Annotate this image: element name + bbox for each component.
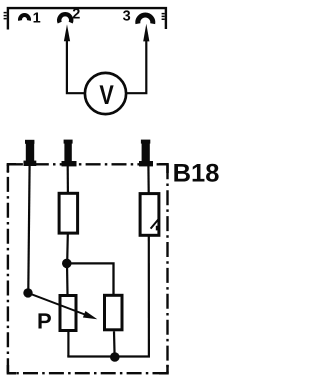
potentiometer P body <box>60 296 76 331</box>
resistor R2 (right, with trim mark) <box>140 194 159 236</box>
junction node B <box>110 352 120 362</box>
wire terminal1 down to wiper node <box>28 165 29 290</box>
wire R3 bottom to node B <box>113 331 116 356</box>
enclosure B18 dash-dot boundary <box>8 164 168 373</box>
wire terminal2 down to resistor R1 <box>67 165 69 192</box>
wire from voltmeter left up to terminal 2 <box>67 33 85 93</box>
frame left serration ticks <box>4 13 7 19</box>
resistor R1 <box>59 193 78 233</box>
wire node A down to potentiometer P <box>66 263 69 294</box>
bolt terminal for pin 2 <box>62 140 77 167</box>
wire R2 bottom down right side <box>148 236 150 356</box>
svg-text:1: 1 <box>33 10 41 26</box>
enclosure corner elbows <box>8 164 168 373</box>
wire terminal3 down to resistor R2 <box>147 165 150 193</box>
terminal contact arc 3 <box>138 15 153 24</box>
svg-text:B18: B18 <box>173 160 220 188</box>
bolt terminal for pin 1 <box>24 140 37 166</box>
frame right serration ticks <box>162 14 165 20</box>
terminal strip frame top edge <box>8 8 166 29</box>
junction node A <box>62 259 72 269</box>
svg-text:P: P <box>37 309 52 334</box>
svg-text:V: V <box>99 80 113 110</box>
terminal contact arc 1 <box>20 15 29 20</box>
arrow to terminal 3 <box>143 24 149 42</box>
potentiometer wiper arrow from node W <box>29 293 97 319</box>
wire R1 bottom to node A <box>66 235 69 263</box>
voltmeter V1 circle <box>85 73 126 114</box>
R2 trim diagonal fragment <box>151 218 160 230</box>
junction node W (wiper tap) <box>23 288 32 297</box>
wire node A right and down to resistor R3 <box>67 263 114 294</box>
bolt terminal for pin 3 <box>139 140 153 167</box>
svg-text:3: 3 <box>123 9 131 25</box>
wire from voltmeter right up to terminal 3 <box>127 33 146 93</box>
arrow to terminal 2 <box>64 24 70 41</box>
svg-text:2: 2 <box>72 7 80 23</box>
terminal contact arc 2 <box>59 14 71 22</box>
wire potentiometer bottom to bottom rail <box>67 332 69 357</box>
bottom rail wire <box>67 355 150 357</box>
resistor R3 <box>105 295 123 330</box>
